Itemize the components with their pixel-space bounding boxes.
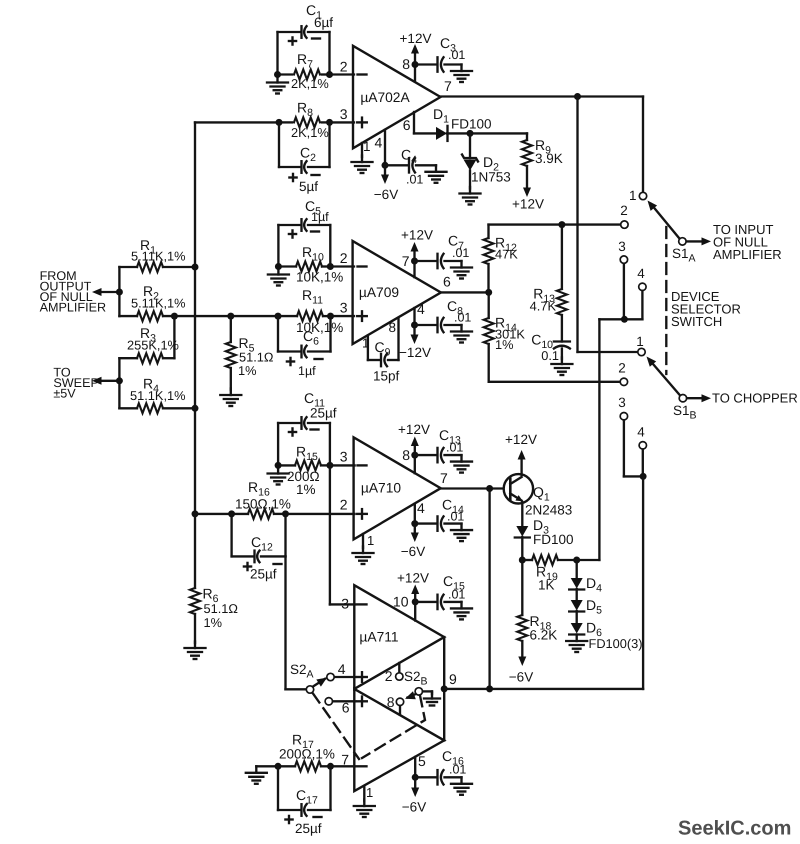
node R7 right bbox=[326, 71, 333, 78]
label TO SWEEP +-5V bbox=[53, 366, 99, 401]
svg-text:2: 2 bbox=[385, 668, 393, 684]
wire D5-D6 bbox=[576, 611, 578, 623]
watermark SeekIC.com bbox=[678, 818, 791, 840]
wire pin 4 stub bbox=[384, 130, 386, 166]
ground at R15 left bbox=[268, 467, 289, 485]
wire pin 4 stub U2 bbox=[413, 308, 415, 325]
resistor R13 bbox=[530, 225, 567, 342]
resistor R18 bbox=[517, 560, 557, 658]
wire S1B-3 down bbox=[623, 421, 625, 477]
wire S1B-34 joint bbox=[624, 475, 643, 477]
svg-text:+12V: +12V bbox=[400, 31, 432, 46]
svg-text:5.11K,1%: 5.11K,1% bbox=[131, 296, 186, 311]
+12V supply at pin 8 bbox=[400, 31, 432, 65]
pin 7 label U2 bbox=[402, 253, 410, 269]
svg-text:1: 1 bbox=[629, 188, 637, 203]
svg-text:.01: .01 bbox=[454, 311, 471, 325]
node R4 bus bbox=[192, 405, 199, 412]
svg-text:3: 3 bbox=[340, 106, 348, 122]
svg-text:−12V: −12V bbox=[399, 345, 431, 360]
wire D1 to R9 bbox=[447, 132, 527, 134]
capacitor C4 bbox=[385, 147, 436, 187]
svg-text:4: 4 bbox=[375, 135, 383, 151]
capacitor C12 bbox=[232, 514, 286, 582]
capacitor C8 bbox=[415, 298, 472, 332]
svg-text:1: 1 bbox=[363, 139, 371, 154]
label S2B bbox=[404, 669, 428, 688]
ground at C10 bbox=[551, 358, 572, 376]
transistor Q1 bbox=[504, 474, 573, 517]
svg-text:3: 3 bbox=[341, 596, 349, 612]
svg-text:2: 2 bbox=[340, 59, 348, 75]
wire R19 to bus bbox=[577, 559, 600, 561]
-6V supply at pin 4 bbox=[374, 165, 398, 202]
svg-text:15pf: 15pf bbox=[373, 369, 400, 384]
pin 5 label U4 bbox=[418, 753, 426, 769]
node pin 8 U3 bbox=[411, 452, 418, 459]
node R1 bus bbox=[192, 264, 199, 271]
ground at C16 bbox=[451, 777, 472, 795]
svg-text:3: 3 bbox=[618, 239, 626, 254]
contact S1B-2 bbox=[618, 361, 627, 386]
wire to pin 2 bbox=[330, 73, 355, 75]
svg-text:2N2483: 2N2483 bbox=[525, 503, 572, 518]
node pin 8 bbox=[412, 61, 419, 68]
node U1 output bbox=[574, 93, 581, 100]
svg-text:9: 9 bbox=[449, 671, 457, 687]
node U2 output bbox=[485, 289, 492, 296]
wire D2 stub bbox=[469, 133, 471, 158]
svg-text:.01: .01 bbox=[447, 510, 464, 524]
contact S1A-4 bbox=[637, 266, 646, 290]
resistor R6 bbox=[190, 514, 238, 643]
node R5 tap bbox=[227, 313, 234, 320]
svg-text:+12V: +12V bbox=[512, 197, 544, 212]
label S1A bbox=[672, 246, 696, 265]
op-amp U3 uA710 bbox=[354, 437, 441, 539]
contact U4 pin 2 bbox=[385, 663, 403, 684]
wire to U2 pin 2 bbox=[330, 265, 354, 267]
wire S1A-3 down bbox=[623, 264, 625, 319]
svg-text:1: 1 bbox=[367, 533, 374, 548]
svg-text:TO CHOPPER: TO CHOPPER bbox=[712, 391, 798, 406]
node R10 left bbox=[275, 263, 282, 270]
resistor R1 bbox=[119, 237, 195, 272]
ground at C15 bbox=[451, 602, 472, 620]
svg-text:51.1Ω: 51.1Ω bbox=[204, 601, 239, 616]
wire U4 output row bbox=[444, 688, 643, 690]
switch arm S1B bbox=[647, 357, 687, 402]
svg-text:150Ω,1%: 150Ω,1% bbox=[235, 497, 291, 512]
node U4 output at bar bbox=[441, 685, 448, 692]
resistor R14 bbox=[484, 292, 526, 381]
diode D6 bbox=[569, 620, 642, 652]
svg-text:47K: 47K bbox=[495, 247, 518, 262]
pin 4 label U3 bbox=[417, 500, 425, 516]
svg-text:1K: 1K bbox=[538, 578, 555, 593]
link S2A dashed bbox=[313, 694, 359, 760]
wire R3-R4 left leg bbox=[118, 358, 120, 408]
node R17 left bbox=[275, 763, 282, 770]
-12V supply at U2 pin 4 bbox=[399, 325, 431, 360]
svg-text:8: 8 bbox=[402, 56, 410, 72]
wire pin 6 U4 bbox=[333, 700, 355, 702]
svg-text:−6V: −6V bbox=[401, 544, 425, 559]
capacitor C11 bbox=[278, 390, 337, 465]
wire pin6 to D1 bbox=[414, 132, 436, 134]
svg-text:2K,1%: 2K,1% bbox=[291, 76, 329, 91]
ground at C13 bbox=[451, 455, 472, 473]
wire U3 output bbox=[441, 487, 503, 489]
capacitor C3 bbox=[415, 35, 465, 72]
svg-text:255K,1%: 255K,1% bbox=[127, 338, 179, 353]
svg-text:.01: .01 bbox=[452, 246, 469, 260]
contact S1A-2 bbox=[620, 203, 628, 228]
resistor R15 bbox=[278, 444, 330, 498]
switch arm S1A bbox=[648, 201, 687, 246]
ground at C7 bbox=[451, 261, 472, 279]
wire Q1 emitter bbox=[521, 502, 523, 526]
wire pin 8 stub U3 bbox=[414, 455, 416, 473]
node R7 left bbox=[274, 71, 281, 78]
label TO INPUT OF NULL AMPLIFIER bbox=[713, 222, 782, 262]
svg-text:1: 1 bbox=[366, 785, 373, 800]
svg-text:10K,1%: 10K,1% bbox=[296, 270, 343, 285]
wire pin 4 stub U3 bbox=[414, 504, 416, 524]
node C6 left bbox=[275, 313, 282, 320]
wire S1A-34 joint bbox=[599, 318, 642, 320]
svg-text:8: 8 bbox=[402, 447, 410, 463]
resistor R5 bbox=[226, 316, 274, 390]
node S1A-34 bbox=[621, 316, 628, 323]
wire to pin 3 bbox=[330, 121, 355, 123]
node R19 left bbox=[519, 557, 526, 564]
svg-text:+12V: +12V bbox=[397, 571, 429, 586]
pin 7 label bbox=[444, 78, 452, 94]
pin 3 label bbox=[340, 106, 348, 122]
svg-text:6.2K: 6.2K bbox=[530, 628, 558, 643]
wire bus to R19 bbox=[598, 319, 600, 560]
-6V supply at U3 pin 4 bbox=[401, 524, 425, 559]
node R13 top bbox=[558, 221, 565, 228]
pin 2 label U2 bbox=[340, 250, 348, 266]
diode D3 bbox=[515, 517, 574, 547]
svg-text:.01: .01 bbox=[449, 763, 466, 777]
label FROM OUTPUT OF NULL AMPLIFIER bbox=[40, 269, 106, 315]
wire R16 to U3 pin 2 bbox=[286, 513, 355, 515]
pin 4 label U2 bbox=[417, 301, 425, 317]
wire D4-D5 bbox=[576, 589, 578, 600]
pin 9 label U4 bbox=[449, 671, 457, 687]
wire D3 to R19 bbox=[521, 537, 523, 560]
svg-text:AMPLIFIER: AMPLIFIER bbox=[40, 301, 106, 315]
pin 6 label bbox=[403, 117, 411, 133]
svg-text:8: 8 bbox=[387, 694, 395, 710]
node pin 7 U2 bbox=[411, 258, 418, 265]
svg-text:4.7K: 4.7K bbox=[530, 299, 557, 314]
wire pin 1 stub U3 bbox=[362, 534, 364, 548]
op-amp U4 uA711 bbox=[354, 585, 444, 791]
wire R15 to U3 pin 3 bbox=[330, 464, 355, 466]
svg-text:1%: 1% bbox=[495, 337, 514, 352]
svg-text:51.1K,1%: 51.1K,1% bbox=[130, 388, 186, 403]
svg-text:25µf: 25µf bbox=[295, 821, 322, 836]
node U4 feedback bbox=[486, 685, 493, 692]
capacitor C10 bbox=[531, 332, 570, 364]
op-amp U1 uA702A bbox=[353, 46, 441, 149]
svg-text:6: 6 bbox=[403, 117, 411, 133]
svg-text:1µf: 1µf bbox=[311, 210, 329, 224]
node R15 right bbox=[326, 462, 333, 469]
label S2A bbox=[290, 662, 314, 681]
svg-text:4: 4 bbox=[417, 301, 425, 317]
svg-text:FD100: FD100 bbox=[533, 532, 574, 547]
resistor R9 bbox=[522, 133, 563, 189]
contact S1A-1 bbox=[629, 188, 647, 203]
pin 8 label bbox=[402, 56, 410, 72]
capacitor C6 bbox=[278, 316, 331, 378]
pin 8 label U2 bbox=[388, 320, 396, 335]
svg-text:8: 8 bbox=[388, 320, 396, 335]
svg-text:5µf: 5µf bbox=[299, 179, 318, 194]
node C12 right bbox=[282, 510, 289, 517]
wire output down to S1A-1 bbox=[642, 97, 644, 192]
resistor R10 bbox=[278, 244, 343, 285]
svg-text:µA709: µA709 bbox=[359, 285, 399, 300]
resistor R2 bbox=[119, 283, 278, 321]
svg-text:7: 7 bbox=[341, 752, 349, 768]
wire R1-R2 left leg bbox=[118, 267, 120, 316]
svg-text:1%: 1% bbox=[296, 482, 316, 497]
wire pin 10 stub U4 bbox=[414, 602, 416, 621]
svg-text:6µf: 6µf bbox=[314, 15, 333, 30]
svg-text:−6V: −6V bbox=[374, 187, 398, 202]
resistor R7 bbox=[278, 51, 330, 91]
wire C1 right leg bbox=[328, 32, 330, 75]
svg-text:1%: 1% bbox=[204, 615, 223, 630]
ground at D6 bbox=[566, 635, 587, 653]
contact U4 pin 8 bbox=[387, 694, 404, 715]
wire to U2 pin 3 bbox=[331, 315, 355, 317]
wire R19 node to D4 bbox=[576, 560, 578, 578]
resistor R8 bbox=[279, 100, 330, 141]
wire bus top corner bbox=[195, 121, 279, 123]
node R3 tap bbox=[171, 313, 178, 320]
resistor R17 bbox=[278, 732, 335, 772]
svg-text:7: 7 bbox=[444, 78, 452, 94]
capacitor C17 bbox=[278, 766, 331, 836]
svg-text:25µf: 25µf bbox=[250, 567, 277, 582]
svg-text:4: 4 bbox=[417, 500, 425, 516]
svg-text:25µf: 25µf bbox=[310, 406, 337, 421]
diode D1 bbox=[433, 106, 492, 141]
ground at D2 bbox=[460, 187, 481, 205]
capacitor C14 bbox=[415, 497, 465, 531]
wire U1 output bbox=[441, 95, 644, 97]
switch arm S2B bbox=[405, 688, 422, 700]
diode D5 bbox=[569, 597, 602, 617]
svg-text:0.1: 0.1 bbox=[541, 348, 559, 363]
resistor R3 bbox=[119, 325, 179, 363]
wire bus to U4 pin 3 bbox=[330, 465, 355, 604]
capacitor C15 bbox=[415, 573, 465, 609]
switch arm S2A bbox=[306, 678, 327, 694]
pin 1 label U4 bbox=[366, 785, 373, 800]
wire pin 4 U4 bbox=[335, 676, 356, 678]
node R15 left bbox=[275, 462, 282, 469]
wire left bus bbox=[194, 122, 196, 514]
capacitor C13 bbox=[415, 427, 464, 462]
svg-text:7: 7 bbox=[402, 253, 410, 269]
svg-text:.01: .01 bbox=[406, 173, 423, 187]
capacitor C9 bbox=[368, 318, 400, 384]
node S1B-34 bbox=[640, 473, 647, 480]
wire R12 top row bbox=[489, 223, 621, 225]
resistor R11 bbox=[278, 287, 343, 335]
ground at C4 bbox=[426, 165, 447, 183]
svg-text:2: 2 bbox=[340, 250, 348, 266]
svg-text:FD100: FD100 bbox=[451, 117, 492, 132]
wire R17 to pin 7 bbox=[331, 765, 356, 767]
ground at R5 bbox=[220, 389, 241, 407]
pin 1 label U2 bbox=[362, 336, 369, 351]
ground at R6 bbox=[185, 642, 206, 660]
node bus R16 bbox=[192, 510, 199, 517]
svg-text:5: 5 bbox=[418, 753, 426, 769]
ground at C3 bbox=[451, 65, 472, 83]
node sweep arrow bbox=[116, 377, 123, 384]
svg-text:.01: .01 bbox=[446, 441, 463, 455]
label TO CHOPPER bbox=[712, 391, 798, 406]
diode D4 bbox=[569, 575, 602, 595]
svg-text:200Ω,1%: 200Ω,1% bbox=[279, 747, 335, 762]
wire pin 5 stub U4 bbox=[414, 757, 416, 777]
svg-text:µA711: µA711 bbox=[359, 630, 398, 645]
svg-text:2K,1%: 2K,1% bbox=[291, 125, 329, 140]
wire U1 out to S1B-1 bbox=[578, 97, 638, 353]
svg-text:3: 3 bbox=[340, 449, 348, 465]
pin 2 label U3 bbox=[340, 497, 348, 513]
pin 1 label U3 bbox=[367, 533, 374, 548]
pin 7 label U3 bbox=[440, 470, 448, 486]
node input arrow bbox=[116, 289, 123, 296]
svg-text:3: 3 bbox=[618, 395, 626, 410]
svg-text:SWITCH: SWITCH bbox=[671, 314, 722, 329]
contact S2A-4 bbox=[327, 661, 346, 681]
svg-text:4: 4 bbox=[338, 661, 346, 677]
node U3 output bbox=[486, 485, 493, 492]
+12V supply at Q1 collector bbox=[505, 432, 537, 475]
svg-text:.01: .01 bbox=[448, 588, 465, 602]
contact S1A-3 bbox=[618, 239, 627, 263]
-6V supply at U4 pin 5 bbox=[402, 777, 426, 814]
node pin 4 bbox=[382, 162, 389, 169]
resistor R4 bbox=[119, 376, 195, 414]
pin 6 label U2 bbox=[443, 274, 451, 290]
resistor R16 bbox=[195, 479, 291, 519]
svg-text:7: 7 bbox=[440, 470, 448, 486]
node R8 right bbox=[326, 119, 333, 126]
svg-text:1%: 1% bbox=[238, 363, 257, 378]
svg-text:µA710: µA710 bbox=[361, 481, 401, 496]
svg-text:−6V: −6V bbox=[509, 670, 533, 685]
pin 4 label bbox=[375, 135, 383, 151]
svg-text:FD100(3): FD100(3) bbox=[589, 636, 643, 651]
svg-text:4: 4 bbox=[637, 266, 645, 281]
svg-text:3: 3 bbox=[340, 300, 348, 316]
capacitor C5 bbox=[278, 198, 330, 267]
wire U3 output feedback down bbox=[488, 489, 490, 689]
svg-text:SeekIC.com: SeekIC.com bbox=[678, 818, 791, 840]
ground at R10 left bbox=[268, 268, 289, 286]
ground at pin 1 bbox=[352, 156, 373, 174]
pin 3 label U2 bbox=[340, 300, 348, 316]
svg-text:1N753: 1N753 bbox=[471, 170, 511, 185]
capacitor C7 bbox=[415, 233, 470, 269]
svg-text:+12V: +12V bbox=[398, 422, 430, 437]
capacitor C2 bbox=[279, 122, 330, 194]
svg-text:4: 4 bbox=[637, 425, 645, 440]
pin 10 label U4 bbox=[393, 594, 409, 610]
wire pin 8 stub bbox=[414, 65, 416, 82]
svg-text:.01: .01 bbox=[448, 48, 465, 62]
node R19 right bbox=[573, 557, 580, 564]
ground at R7 left bbox=[267, 76, 288, 94]
node pin 4 U3 bbox=[411, 520, 418, 527]
pin 3 label U3 bbox=[340, 449, 348, 465]
node pin 4 U2 bbox=[411, 322, 418, 329]
ground at C14 bbox=[451, 524, 472, 542]
pin 2 label bbox=[340, 59, 348, 75]
+12V supply at U2 pin 7 bbox=[401, 228, 433, 262]
pin 1 label bbox=[363, 139, 371, 154]
+12V supply below R9 bbox=[512, 188, 544, 212]
svg-text:±5V: ±5V bbox=[53, 387, 76, 401]
svg-text:AMPLIFIER: AMPLIFIER bbox=[713, 247, 782, 262]
svg-text:5.11K,1%: 5.11K,1% bbox=[131, 249, 186, 264]
svg-text:2: 2 bbox=[618, 361, 626, 376]
op-amp U2 uA709 bbox=[353, 241, 441, 344]
svg-text:1µf: 1µf bbox=[298, 364, 316, 378]
node D2 tap bbox=[467, 130, 474, 137]
arrow from null amplifier bbox=[92, 288, 119, 296]
svg-text:3.9K: 3.9K bbox=[535, 151, 563, 166]
wire R14 bottom row bbox=[489, 381, 620, 383]
resistor R19 bbox=[522, 555, 576, 593]
capacitor C1 bbox=[278, 2, 334, 45]
wire D2 to ground bbox=[469, 171, 471, 189]
svg-text:10: 10 bbox=[393, 594, 409, 610]
svg-text:+12V: +12V bbox=[401, 228, 433, 243]
wire pin 1 stub bbox=[361, 143, 363, 157]
wire S1B-34 down to output row bbox=[642, 476, 644, 689]
wire C1 left leg bbox=[276, 32, 278, 75]
-6V supply below R18 bbox=[509, 657, 533, 685]
svg-text:6: 6 bbox=[443, 274, 451, 290]
node R8 left bbox=[276, 119, 283, 126]
node R10 right bbox=[327, 263, 334, 270]
node pin 5 U4 bbox=[412, 774, 419, 781]
svg-text:1: 1 bbox=[636, 334, 644, 349]
node R11 right bbox=[327, 313, 334, 320]
capacitor C16 bbox=[415, 748, 466, 785]
mechanical link dashed bbox=[665, 227, 667, 374]
diode D2 bbox=[462, 154, 511, 185]
wire pin 1 stub U4 bbox=[363, 786, 365, 801]
ground at R17 left bbox=[246, 766, 278, 784]
contact S1B-1 bbox=[636, 334, 645, 356]
svg-text:+12V: +12V bbox=[505, 432, 537, 447]
